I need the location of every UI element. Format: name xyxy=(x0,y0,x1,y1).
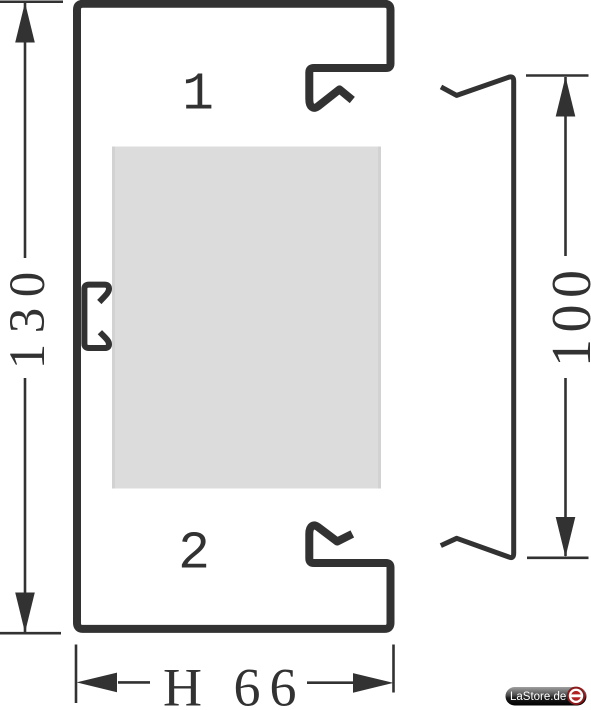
svg-text:100: 100 xyxy=(541,264,591,368)
svg-text:LaStore.de: LaStore.de xyxy=(510,691,566,703)
svg-text:130: 130 xyxy=(0,261,56,369)
svg-text:2: 2 xyxy=(178,524,210,584)
svg-text:H 66: H 66 xyxy=(163,658,306,710)
svg-text:1: 1 xyxy=(182,65,214,125)
